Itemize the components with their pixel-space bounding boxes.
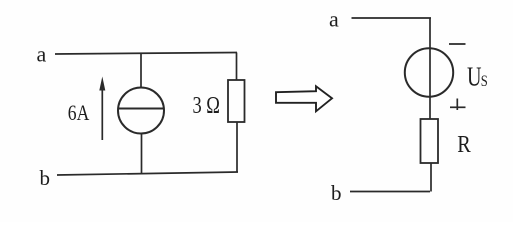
svg-text:3 Ω: 3 Ω bbox=[193, 92, 221, 119]
svg-text:a: a bbox=[37, 42, 47, 67]
svg-text:S: S bbox=[481, 73, 488, 90]
svg-text:b: b bbox=[40, 166, 51, 190]
svg-text:a: a bbox=[329, 7, 339, 32]
svg-text:U: U bbox=[467, 62, 482, 92]
svg-text:R: R bbox=[457, 131, 471, 158]
svg-text:b: b bbox=[331, 181, 342, 205]
svg-text:6A: 6A bbox=[68, 100, 90, 125]
